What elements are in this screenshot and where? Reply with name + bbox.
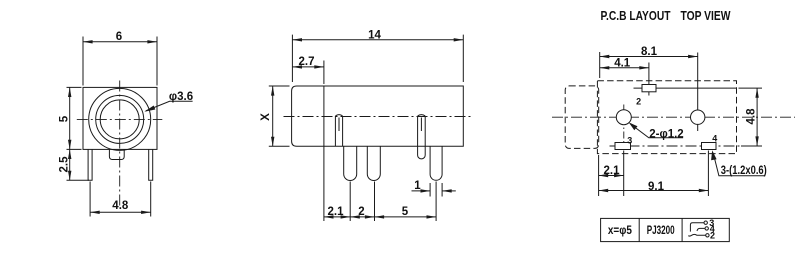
legend switch terminal circles — [704, 221, 707, 224]
front view body — [83, 87, 157, 149]
dimension 8.1 line — [600, 56, 698, 58]
dimension 2.1 line — [324, 216, 350, 218]
svg-text:2: 2 — [710, 231, 715, 241]
legend switch symbol terminal 2 line — [688, 234, 705, 236]
dimension 4.8 extension lines — [90, 182, 151, 217]
dimension 1 extension lines — [430, 183, 442, 197]
svg-text:1: 1 — [414, 180, 421, 192]
dimension 5 line (side view) — [375, 216, 437, 218]
dimension 8.1 extension line — [599, 52, 601, 78]
pcb horizontal centerline — [552, 116, 795, 118]
dimension 4.8 line — [90, 211, 151, 213]
pad 4 — [702, 143, 717, 150]
dimension 5 extension lines — [67, 87, 82, 149]
svg-text:2.1: 2.1 — [604, 165, 621, 177]
pcb hole left — [616, 110, 631, 125]
dimension 4.1 line — [600, 67, 649, 69]
front view right leg — [149, 149, 153, 180]
svg-text:6: 6 — [116, 31, 122, 43]
dimension 2.1 line (pcb) — [599, 175, 624, 177]
svg-text:14: 14 — [368, 30, 381, 42]
legend table frame — [601, 218, 730, 241]
svg-text:2.1: 2.1 — [328, 206, 345, 218]
pcb pads centerline — [610, 145, 741, 147]
side view leg B — [367, 146, 380, 180]
svg-text:4.8: 4.8 — [746, 108, 758, 125]
side view horizontal centerline — [284, 116, 472, 118]
front view center tab — [109, 149, 124, 159]
pcb lower extension lines — [599, 151, 709, 197]
dimension 9.1 line — [599, 190, 709, 192]
side view 2.7 internal line — [323, 86, 325, 146]
svg-text:4: 4 — [712, 134, 717, 144]
dimension X line — [272, 86, 274, 146]
dimension X extension lines — [269, 86, 290, 146]
front view inner circle (hole) — [100, 100, 139, 139]
svg-text:3-(1.2x0.6): 3-(1.2x0.6) — [721, 165, 767, 177]
dimension 2.5 line — [69, 149, 71, 180]
svg-text:5: 5 — [59, 115, 71, 122]
svg-text:5: 5 — [402, 206, 409, 218]
svg-text:2.5: 2.5 — [59, 156, 71, 173]
svg-text:9.1: 9.1 — [648, 181, 665, 193]
dimension 1 arrows outside — [412, 190, 431, 192]
pcb hole right extension/centerline — [697, 53, 699, 132]
dimension 5 line — [69, 87, 71, 149]
dimension 2.7 line — [292, 66, 324, 68]
dimension 2 line — [350, 216, 374, 218]
svg-text:8.1: 8.1 — [641, 46, 658, 58]
pcb footprint left boss dashed — [565, 86, 599, 148]
pcb hole left vertical centerline — [623, 105, 625, 143]
leader 2-phi1.2 — [631, 124, 684, 138]
svg-text:2-φ1.2: 2-φ1.2 — [649, 128, 683, 140]
pad 2 — [642, 85, 656, 92]
svg-text:2.7: 2.7 — [299, 56, 315, 68]
front view middle circle — [96, 95, 144, 143]
dimension 6 line — [83, 41, 157, 43]
front view horizontal centerline — [77, 118, 163, 120]
pcb hole right — [691, 110, 705, 124]
leader 3-(1.2x0.6) — [713, 154, 765, 176]
svg-text:4.1: 4.1 — [614, 57, 631, 69]
dimension 6 extension lines — [83, 37, 157, 86]
svg-text:x=φ5: x=φ5 — [608, 225, 633, 237]
svg-text:4.8: 4.8 — [112, 200, 129, 212]
side view body — [292, 86, 464, 146]
dimension 4.8 line (pcb) — [756, 88, 758, 146]
front view left leg — [88, 149, 92, 180]
svg-text:PJ3200: PJ3200 — [647, 225, 675, 237]
side view internal pin with stub right — [418, 115, 426, 159]
dimension 2.7 extension line — [323, 61, 325, 85]
svg-text:TOP VIEW: TOP VIEW — [681, 8, 732, 23]
front view vertical centerline — [119, 81, 121, 209]
pad 2 row line — [634, 87, 737, 89]
svg-text:2: 2 — [358, 206, 364, 218]
svg-text:P.C.B LAYOUT: P.C.B LAYOUT — [601, 8, 671, 23]
dimension 2.5 extension line — [67, 179, 90, 181]
front view outer circle — [89, 88, 151, 150]
legend switch symbol terminal 3 line — [690, 223, 704, 232]
leader phi3.6 — [146, 101, 193, 111]
pad 2 vertical line — [648, 63, 650, 96]
legend switch symbol terminal 4 line — [697, 228, 705, 231]
pcb footprint main outline dashed — [597, 81, 736, 154]
dimension 4.8 extension lines — [739, 88, 763, 146]
dimension 14 extension lines — [292, 35, 463, 82]
bottom chained dims extension lines — [324, 146, 436, 221]
side view internal pin lines left — [335, 115, 342, 147]
svg-text:X: X — [260, 113, 272, 121]
side view leg C — [430, 146, 442, 180]
dimension 14 line — [292, 39, 463, 41]
svg-text:2: 2 — [636, 97, 641, 107]
svg-text:φ3.6: φ3.6 — [169, 91, 193, 103]
svg-text:3: 3 — [627, 136, 632, 146]
side view leg A — [344, 146, 357, 180]
pad 3 — [615, 143, 631, 150]
